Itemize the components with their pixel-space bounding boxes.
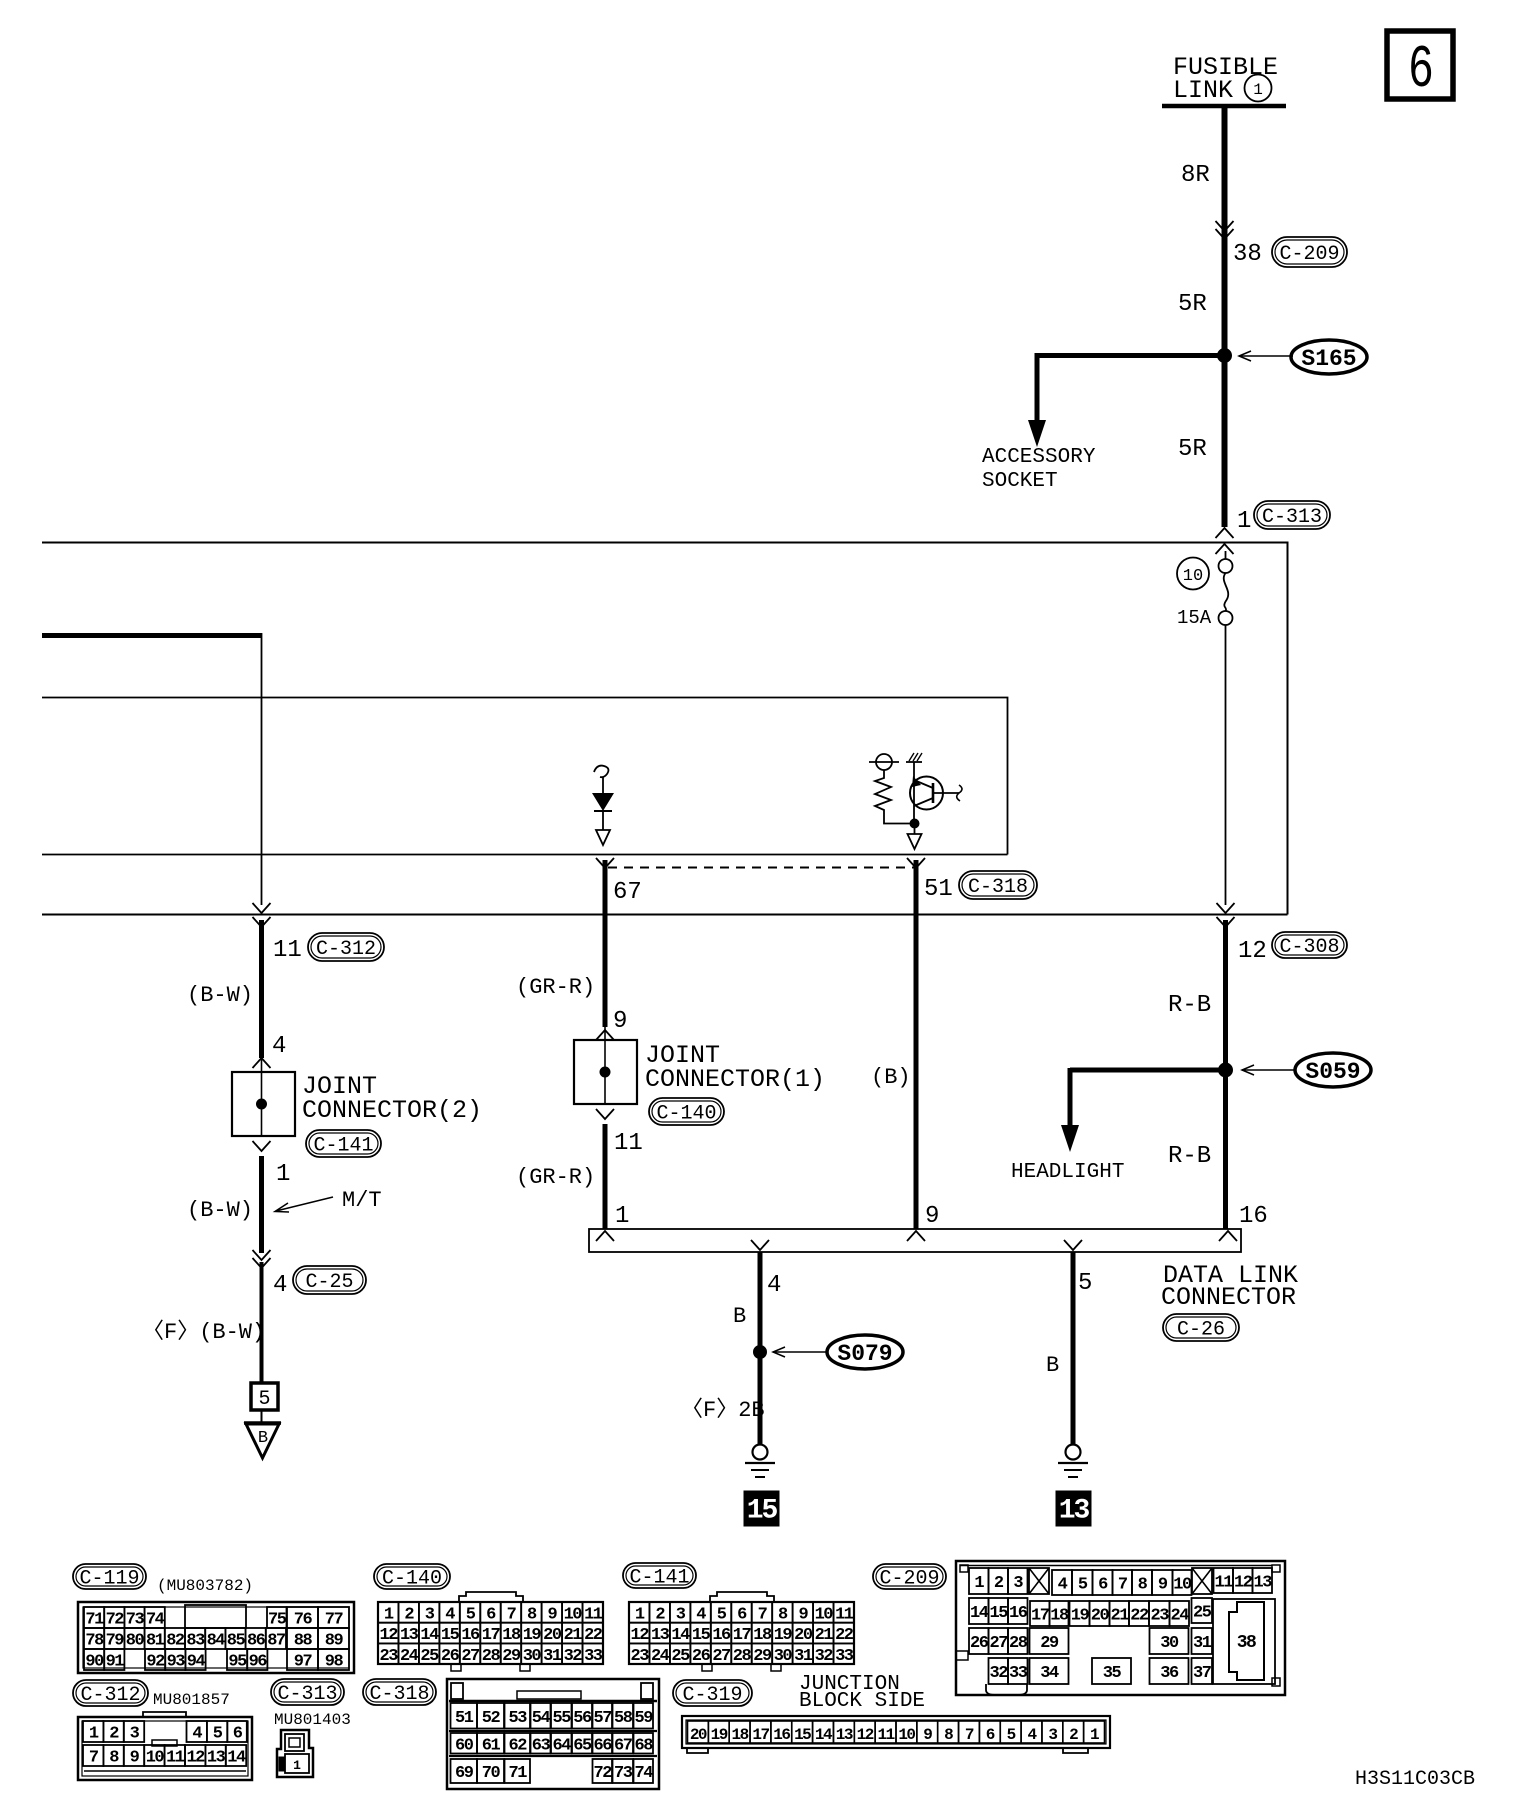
wire drop to pin 11 bbox=[261, 633, 263, 905]
svg-text:C-308: C-308 bbox=[1279, 936, 1339, 959]
svg-text:8: 8 bbox=[778, 1605, 788, 1624]
splice S079 junction dot bbox=[754, 1346, 767, 1359]
svg-text:15: 15 bbox=[990, 1604, 1009, 1623]
svg-text:5R: 5R bbox=[1178, 291, 1207, 318]
connector chevrons at junction block entry bbox=[1216, 528, 1234, 554]
svg-text:30: 30 bbox=[1160, 1634, 1179, 1653]
label joint connector 2 bbox=[302, 1072, 482, 1125]
svg-text:28: 28 bbox=[733, 1647, 752, 1666]
svg-text:1: 1 bbox=[1253, 81, 1263, 99]
svg-text:76: 76 bbox=[294, 1611, 313, 1630]
svg-text:9: 9 bbox=[923, 1726, 932, 1744]
svg-text:77: 77 bbox=[325, 1611, 344, 1630]
joint connector 1 box bbox=[574, 1040, 637, 1104]
svg-text:51: 51 bbox=[924, 876, 953, 903]
svg-text:C-318: C-318 bbox=[369, 1683, 429, 1706]
label joint connector 1 bbox=[645, 1041, 825, 1094]
svg-text:5: 5 bbox=[717, 1605, 727, 1624]
junction block top and right edge bbox=[42, 543, 1288, 915]
chevron into joint connector 2 bbox=[253, 1058, 271, 1068]
svg-text:13: 13 bbox=[207, 1749, 226, 1768]
svg-text:10: 10 bbox=[1183, 567, 1203, 586]
svg-text:12: 12 bbox=[186, 1749, 205, 1768]
svg-text:91: 91 bbox=[106, 1653, 125, 1672]
svg-text:12: 12 bbox=[1238, 938, 1267, 965]
svg-text:C-140: C-140 bbox=[656, 1103, 716, 1126]
dashed link pin 67 to 51 bbox=[608, 867, 915, 869]
wire B-W upper segment bbox=[259, 920, 264, 1058]
svg-text:29: 29 bbox=[502, 1647, 521, 1666]
svg-text:11: 11 bbox=[584, 1605, 603, 1624]
svg-text:C-313: C-313 bbox=[1262, 506, 1322, 529]
svg-text:59: 59 bbox=[635, 1709, 654, 1728]
wire branch to headlight bbox=[1070, 1068, 1226, 1127]
svg-text:BLOCK SIDE: BLOCK SIDE bbox=[799, 1690, 925, 1713]
svg-text:1: 1 bbox=[276, 1161, 290, 1188]
svg-text:6: 6 bbox=[1098, 1576, 1108, 1595]
svg-text:8: 8 bbox=[1138, 1576, 1148, 1595]
connector ref C-313 pinout label bbox=[271, 1679, 351, 1729]
svg-text:2: 2 bbox=[404, 1605, 414, 1624]
chevron data link pin 16 bbox=[1219, 1231, 1237, 1241]
svg-text:C-140: C-140 bbox=[382, 1568, 442, 1591]
svg-text:86: 86 bbox=[247, 1632, 266, 1651]
svg-text:69: 69 bbox=[455, 1764, 474, 1783]
svg-text:10: 10 bbox=[1173, 1576, 1192, 1595]
svg-text:5: 5 bbox=[1007, 1726, 1016, 1744]
svg-text:1: 1 bbox=[293, 1758, 301, 1773]
svg-text:18: 18 bbox=[732, 1726, 749, 1744]
connector ref C-312 bbox=[308, 933, 384, 961]
svg-text:SOCKET: SOCKET bbox=[982, 470, 1058, 493]
svg-text:15: 15 bbox=[747, 1496, 778, 1527]
svg-text:4: 4 bbox=[273, 1272, 287, 1299]
svg-text:90: 90 bbox=[85, 1653, 104, 1672]
svg-text:11: 11 bbox=[1215, 1574, 1234, 1593]
svg-text:2: 2 bbox=[109, 1725, 119, 1744]
splice label S059 bbox=[1242, 1053, 1371, 1087]
svg-text:30: 30 bbox=[774, 1647, 793, 1666]
fusible link bus bar bbox=[1162, 104, 1286, 109]
svg-text:74: 74 bbox=[635, 1764, 654, 1783]
svg-text:(GR-R): (GR-R) bbox=[516, 975, 595, 1000]
junction block bottom edge bbox=[42, 914, 1288, 916]
svg-text:19: 19 bbox=[774, 1626, 793, 1645]
svg-text:33: 33 bbox=[1009, 1664, 1028, 1683]
svg-text:30: 30 bbox=[523, 1647, 542, 1666]
svg-text:18: 18 bbox=[1050, 1607, 1069, 1626]
svg-text:4: 4 bbox=[1058, 1576, 1068, 1595]
svg-text:1: 1 bbox=[974, 1574, 984, 1593]
svg-text:13: 13 bbox=[1059, 1496, 1090, 1527]
svg-text:4: 4 bbox=[445, 1605, 455, 1624]
svg-text:96: 96 bbox=[249, 1653, 268, 1672]
svg-text:7: 7 bbox=[89, 1749, 99, 1768]
fusible link 1 label bbox=[1173, 53, 1278, 105]
connector ref C-26 bbox=[1163, 1314, 1239, 1342]
joint connector 2 box bbox=[232, 1058, 295, 1136]
connector C-313 pinout bbox=[277, 1730, 313, 1777]
svg-text:1: 1 bbox=[1090, 1726, 1099, 1744]
svg-text:17: 17 bbox=[733, 1626, 752, 1645]
svg-text:17: 17 bbox=[482, 1626, 501, 1645]
svg-text:72: 72 bbox=[594, 1764, 613, 1783]
svg-text:17: 17 bbox=[1031, 1607, 1050, 1626]
svg-text:3: 3 bbox=[1048, 1726, 1057, 1744]
svg-text:53: 53 bbox=[509, 1709, 528, 1728]
svg-text:32: 32 bbox=[990, 1664, 1009, 1683]
svg-text:16: 16 bbox=[1239, 1203, 1268, 1230]
svg-text:29: 29 bbox=[753, 1647, 772, 1666]
svg-text:HEADLIGHT: HEADLIGHT bbox=[1011, 1161, 1124, 1184]
chevron pin 12 C-308 bbox=[1217, 903, 1235, 927]
splice label S079 bbox=[773, 1335, 903, 1369]
transistor Q1 bbox=[910, 762, 962, 820]
connector ref C-25 bbox=[293, 1266, 366, 1294]
svg-text:19: 19 bbox=[1071, 1607, 1090, 1626]
chevron data link pin 4 bbox=[751, 1240, 769, 1250]
svg-text:28: 28 bbox=[482, 1647, 501, 1666]
svg-text:13: 13 bbox=[651, 1626, 670, 1645]
svg-text:66: 66 bbox=[594, 1736, 613, 1755]
svg-text:15: 15 bbox=[692, 1626, 711, 1645]
svg-text:27: 27 bbox=[712, 1647, 731, 1666]
svg-text:(GR-R): (GR-R) bbox=[516, 1165, 595, 1190]
svg-text:89: 89 bbox=[325, 1632, 344, 1651]
svg-text:5: 5 bbox=[1078, 1270, 1092, 1297]
arrowhead to accessory socket bbox=[1028, 420, 1046, 447]
svg-text:15A: 15A bbox=[1177, 607, 1212, 629]
svg-text:95: 95 bbox=[228, 1653, 247, 1672]
svg-text:1: 1 bbox=[1237, 508, 1251, 535]
svg-text:16: 16 bbox=[773, 1726, 790, 1744]
svg-text:60: 60 bbox=[455, 1736, 474, 1755]
svg-text:84: 84 bbox=[207, 1632, 226, 1651]
svg-text:22: 22 bbox=[1130, 1607, 1149, 1626]
arrowhead to headlight bbox=[1061, 1125, 1079, 1152]
wire F B-W segment bbox=[260, 1262, 264, 1383]
svg-text:36: 36 bbox=[1160, 1664, 1179, 1683]
svg-text:11: 11 bbox=[273, 937, 302, 964]
svg-text:11: 11 bbox=[877, 1726, 894, 1744]
svg-text:CONNECTOR(2): CONNECTOR(2) bbox=[302, 1096, 482, 1125]
svg-text:〈F〉2B: 〈F〉2B bbox=[681, 1398, 765, 1423]
svg-text:1: 1 bbox=[615, 1203, 629, 1230]
svg-text:24: 24 bbox=[400, 1647, 419, 1666]
chevron into joint connector 1 bbox=[596, 1030, 614, 1040]
svg-text:26: 26 bbox=[441, 1647, 460, 1666]
wire GR-R lower segment bbox=[603, 1124, 608, 1229]
svg-text:8R: 8R bbox=[1181, 162, 1210, 189]
svg-text:92: 92 bbox=[146, 1653, 165, 1672]
svg-text:14: 14 bbox=[227, 1749, 246, 1768]
svg-text:8: 8 bbox=[527, 1605, 537, 1624]
bus wire from junction block left bbox=[42, 633, 262, 638]
svg-text:C-209: C-209 bbox=[879, 1568, 939, 1591]
svg-text:(B-W): (B-W) bbox=[187, 983, 253, 1008]
wire 8R from fusible link bbox=[1222, 106, 1228, 527]
svg-text:97: 97 bbox=[294, 1653, 313, 1672]
svg-text:18: 18 bbox=[502, 1626, 521, 1645]
svg-text:14: 14 bbox=[815, 1726, 833, 1744]
svg-text:18: 18 bbox=[753, 1626, 772, 1645]
svg-text:85: 85 bbox=[227, 1632, 246, 1651]
wire GR-R pin67 to joint connector 1 bbox=[603, 860, 608, 1040]
svg-text:CONNECTOR(1): CONNECTOR(1) bbox=[645, 1065, 825, 1094]
svg-text:98: 98 bbox=[325, 1653, 344, 1672]
svg-text:R-B: R-B bbox=[1168, 1143, 1211, 1170]
connector ref C-313 bbox=[1254, 501, 1330, 529]
svg-text:29: 29 bbox=[1040, 1634, 1059, 1653]
svg-text:5: 5 bbox=[1078, 1576, 1088, 1595]
svg-text:13: 13 bbox=[400, 1626, 419, 1645]
svg-text:64: 64 bbox=[553, 1736, 572, 1755]
chevron out of joint connector 2 bbox=[253, 1141, 271, 1151]
svg-text:94: 94 bbox=[187, 1653, 206, 1672]
svg-text:C-318: C-318 bbox=[968, 876, 1028, 899]
svg-text:62: 62 bbox=[509, 1736, 528, 1755]
svg-text:C-313: C-313 bbox=[277, 1683, 337, 1706]
svg-text:55: 55 bbox=[553, 1709, 572, 1728]
svg-text:14: 14 bbox=[970, 1604, 989, 1623]
svg-text:34: 34 bbox=[1040, 1664, 1059, 1683]
svg-text:26: 26 bbox=[970, 1634, 989, 1653]
svg-text:12: 12 bbox=[857, 1726, 874, 1744]
svg-text:73: 73 bbox=[614, 1764, 633, 1783]
svg-text:31: 31 bbox=[543, 1647, 562, 1666]
connector ref C-141 pinout label bbox=[623, 1563, 696, 1590]
connector ref C-318 bbox=[959, 871, 1037, 899]
svg-text:7: 7 bbox=[758, 1605, 768, 1624]
svg-text:25: 25 bbox=[1193, 1604, 1212, 1623]
svg-text:20: 20 bbox=[794, 1626, 813, 1645]
svg-text:4: 4 bbox=[767, 1272, 781, 1299]
svg-text:9: 9 bbox=[613, 1008, 627, 1035]
svg-text:C-319: C-319 bbox=[682, 1684, 742, 1707]
svg-text:3: 3 bbox=[425, 1605, 435, 1624]
svg-text:37: 37 bbox=[1193, 1664, 1212, 1683]
svg-text:23: 23 bbox=[380, 1647, 399, 1666]
svg-text:5: 5 bbox=[258, 1388, 270, 1411]
svg-text:CONNECTOR: CONNECTOR bbox=[1161, 1283, 1296, 1312]
svg-text:3: 3 bbox=[130, 1725, 140, 1744]
relay box outline bbox=[42, 698, 1008, 855]
svg-text:20: 20 bbox=[1091, 1607, 1110, 1626]
svg-text:5: 5 bbox=[466, 1605, 476, 1624]
fuse 10 15A bbox=[1177, 551, 1233, 629]
inline connector chevrons C-25 pin 4 bbox=[253, 1250, 271, 1268]
svg-text:24: 24 bbox=[1171, 1607, 1190, 1626]
ground symbol right bbox=[1058, 1445, 1088, 1478]
svg-text:7: 7 bbox=[507, 1605, 517, 1624]
svg-text:(B-W): (B-W) bbox=[187, 1198, 253, 1223]
arrow M/T to wire bbox=[275, 1197, 333, 1212]
svg-text:12: 12 bbox=[380, 1626, 399, 1645]
label data link connector bbox=[1161, 1261, 1298, 1312]
chevron data link pin 5 bbox=[1064, 1240, 1082, 1250]
svg-text:8: 8 bbox=[944, 1726, 953, 1744]
svg-text:6: 6 bbox=[233, 1725, 243, 1744]
svg-text:79: 79 bbox=[106, 1632, 125, 1651]
svg-text:38: 38 bbox=[1237, 1633, 1256, 1653]
svg-text:21: 21 bbox=[815, 1626, 834, 1645]
svg-text:1: 1 bbox=[89, 1725, 99, 1744]
svg-text:87: 87 bbox=[267, 1632, 286, 1651]
wire B to ground 15 bbox=[758, 1252, 763, 1445]
svg-text:13: 13 bbox=[1254, 1574, 1273, 1593]
relay box bottom edge bbox=[42, 854, 1008, 856]
svg-text:71: 71 bbox=[85, 1611, 104, 1630]
svg-text:MU801857: MU801857 bbox=[153, 1691, 230, 1709]
svg-text:12: 12 bbox=[1234, 1574, 1253, 1593]
chevron pin 51 bbox=[907, 858, 925, 868]
label accessory socket bbox=[982, 446, 1096, 493]
svg-text:R-B: R-B bbox=[1168, 992, 1211, 1019]
svg-text:93: 93 bbox=[167, 1653, 186, 1672]
svg-text:71: 71 bbox=[509, 1764, 528, 1783]
connector C-140 pinout bbox=[378, 1592, 603, 1671]
svg-text:52: 52 bbox=[482, 1709, 501, 1728]
diode D1 bbox=[592, 777, 614, 811]
svg-text:C-312: C-312 bbox=[316, 938, 376, 961]
svg-text:15: 15 bbox=[794, 1726, 811, 1744]
connector ref C-140 pinout label bbox=[374, 1564, 450, 1591]
diode pigtail bbox=[594, 766, 608, 778]
svg-text:H3S11C03CB: H3S11C03CB bbox=[1355, 1768, 1475, 1791]
svg-text:74: 74 bbox=[146, 1611, 165, 1630]
svg-text:(MU803782): (MU803782) bbox=[157, 1577, 253, 1595]
wire B to ground 13 bbox=[1071, 1252, 1076, 1445]
svg-text:10: 10 bbox=[564, 1605, 583, 1624]
svg-text:82: 82 bbox=[166, 1632, 185, 1651]
svg-text:6: 6 bbox=[986, 1726, 995, 1744]
svg-text:27: 27 bbox=[990, 1634, 1009, 1653]
connector ref C-141 schematic bbox=[306, 1130, 381, 1158]
connector ref C-119 pinout label bbox=[73, 1564, 253, 1595]
splice S059 junction dot bbox=[1219, 1063, 1233, 1077]
svg-text:57: 57 bbox=[594, 1709, 613, 1728]
svg-text:19: 19 bbox=[711, 1726, 728, 1744]
svg-text:19: 19 bbox=[523, 1626, 542, 1645]
connector ref C-209 bbox=[1272, 237, 1347, 267]
svg-text:LINK: LINK bbox=[1173, 76, 1233, 105]
svg-text:63: 63 bbox=[532, 1736, 551, 1755]
ground ref box 15 bbox=[744, 1491, 779, 1527]
svg-text:33: 33 bbox=[584, 1647, 603, 1666]
svg-text:C-312: C-312 bbox=[80, 1684, 140, 1707]
chevron pin 11 C-312 bbox=[253, 903, 271, 927]
svg-text:70: 70 bbox=[482, 1764, 501, 1783]
connector ref C-318 pinout label bbox=[363, 1679, 436, 1706]
svg-text:10: 10 bbox=[146, 1749, 165, 1768]
svg-text:9: 9 bbox=[1158, 1576, 1168, 1595]
svg-text:22: 22 bbox=[584, 1626, 603, 1645]
svg-text:14: 14 bbox=[671, 1626, 690, 1645]
svg-text:4: 4 bbox=[696, 1605, 706, 1624]
wire B pin51 to data link pin 9 bbox=[914, 860, 919, 1229]
svg-text:20: 20 bbox=[690, 1726, 707, 1744]
chevron data link pin 9 bbox=[907, 1231, 925, 1241]
svg-text:9: 9 bbox=[925, 1203, 939, 1230]
svg-text:〈F〉(B-W): 〈F〉(B-W) bbox=[142, 1320, 265, 1345]
svg-text:S079: S079 bbox=[837, 1341, 892, 1367]
svg-text:83: 83 bbox=[186, 1632, 205, 1651]
svg-text:(B): (B) bbox=[871, 1065, 911, 1090]
svg-text:S165: S165 bbox=[1301, 346, 1356, 372]
svg-text:67: 67 bbox=[613, 879, 642, 906]
wire from fuse to pin 12 bbox=[1225, 625, 1227, 905]
svg-text:24: 24 bbox=[651, 1647, 670, 1666]
label junction block side bbox=[799, 1673, 925, 1713]
svg-text:16: 16 bbox=[1009, 1604, 1028, 1623]
svg-text:9: 9 bbox=[130, 1749, 140, 1768]
svg-text:3: 3 bbox=[1013, 1574, 1023, 1593]
chevron out of joint connector 1 bbox=[596, 1109, 614, 1119]
svg-text:15: 15 bbox=[441, 1626, 460, 1645]
svg-text:58: 58 bbox=[614, 1709, 633, 1728]
svg-text:B: B bbox=[258, 1429, 268, 1448]
svg-text:6: 6 bbox=[1408, 36, 1434, 105]
svg-text:2: 2 bbox=[655, 1605, 665, 1624]
svg-text:4: 4 bbox=[1027, 1726, 1037, 1744]
svg-text:12: 12 bbox=[631, 1626, 650, 1645]
terminal box 5 bbox=[251, 1383, 278, 1411]
svg-text:4: 4 bbox=[192, 1725, 202, 1744]
svg-text:6: 6 bbox=[737, 1605, 747, 1624]
svg-text:21: 21 bbox=[564, 1626, 583, 1645]
svg-text:32: 32 bbox=[815, 1647, 834, 1666]
svg-text:22: 22 bbox=[835, 1626, 854, 1645]
page number box 6 bbox=[1387, 31, 1453, 104]
svg-text:10: 10 bbox=[898, 1726, 915, 1744]
svg-text:23: 23 bbox=[1151, 1607, 1170, 1626]
svg-text:78: 78 bbox=[85, 1632, 104, 1651]
transistor ground arrow bbox=[908, 823, 922, 849]
svg-text:3: 3 bbox=[676, 1605, 686, 1624]
svg-text:88: 88 bbox=[294, 1632, 313, 1651]
svg-text:67: 67 bbox=[614, 1736, 633, 1755]
svg-text:26: 26 bbox=[692, 1647, 711, 1666]
svg-text:56: 56 bbox=[573, 1709, 592, 1728]
svg-text:72: 72 bbox=[106, 1611, 125, 1630]
svg-text:73: 73 bbox=[126, 1611, 145, 1630]
svg-text:16: 16 bbox=[461, 1626, 480, 1645]
chassis mark bbox=[906, 753, 922, 762]
data link connector bar bbox=[589, 1229, 1241, 1252]
connector C-141 pinout bbox=[629, 1592, 854, 1671]
splice S165 junction dot bbox=[1218, 349, 1232, 363]
wire B-W lower segment bbox=[259, 1156, 264, 1253]
svg-text:13: 13 bbox=[836, 1726, 853, 1744]
svg-text:C-119: C-119 bbox=[79, 1568, 139, 1591]
svg-text:4: 4 bbox=[272, 1033, 286, 1060]
svg-text:1: 1 bbox=[635, 1605, 645, 1624]
svg-text:80: 80 bbox=[126, 1632, 145, 1651]
svg-text:14: 14 bbox=[420, 1626, 439, 1645]
svg-text:16: 16 bbox=[712, 1626, 731, 1645]
svg-text:21: 21 bbox=[1111, 1607, 1130, 1626]
svg-text:C-26: C-26 bbox=[1177, 1319, 1225, 1342]
splice label S165 bbox=[1239, 340, 1367, 374]
ground triangle B bbox=[244, 1410, 281, 1458]
wire branch to accessory socket bbox=[1037, 353, 1225, 422]
diode output arrow bbox=[596, 811, 610, 845]
svg-text:M/T: M/T bbox=[342, 1188, 382, 1213]
svg-text:S059: S059 bbox=[1305, 1059, 1360, 1085]
svg-text:C-141: C-141 bbox=[313, 1135, 373, 1158]
svg-text:11: 11 bbox=[614, 1130, 643, 1157]
svg-text:65: 65 bbox=[573, 1736, 592, 1755]
